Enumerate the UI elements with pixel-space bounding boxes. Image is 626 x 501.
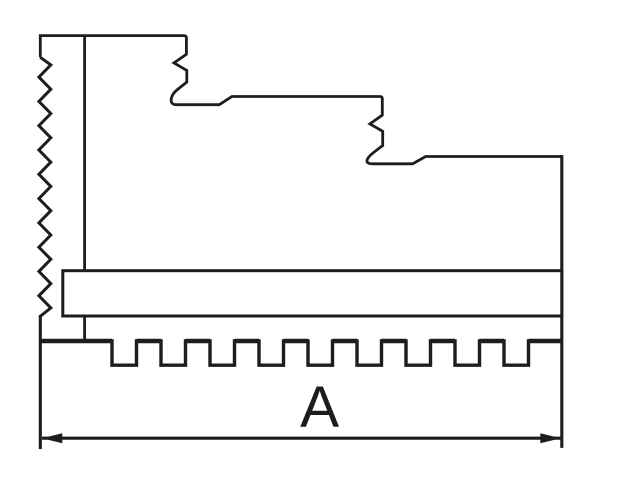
serrated (zigzag) left edge of jaw bbox=[39, 57, 51, 316]
left edge lower part + left dimension extension line bbox=[39, 315, 42, 449]
left arrowhead bbox=[42, 433, 63, 443]
dimension line A bbox=[42, 437, 561, 440]
guide key band (drawn over inner line) bbox=[63, 271, 562, 316]
bottom serration (square-wave teeth) bbox=[40, 341, 562, 365]
jaw body outline: top face, step 1 with relief notch, step 2 with relief notch, right edge bbox=[40, 36, 562, 164]
svg-text:A: A bbox=[300, 375, 339, 440]
right edge of body + right dimension extension line bbox=[560, 155, 563, 448]
thicker top segments of serration bbox=[40, 339, 562, 343]
inner vertical line of the jaw block bbox=[83, 36, 86, 341]
right arrowhead bbox=[540, 433, 561, 443]
